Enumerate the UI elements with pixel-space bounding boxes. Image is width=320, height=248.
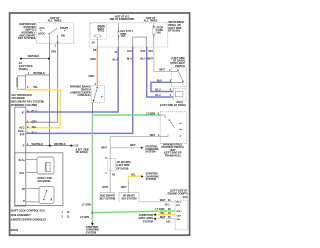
solenoid coil bbox=[46, 162, 50, 171]
LT GRN wire: down to junction, right to PNP switch bbox=[91, 114, 93, 222]
main body ECU inner dashed box bbox=[91, 23, 107, 40]
svg-text:S19: S19 bbox=[148, 49, 153, 53]
LT GRN wire to engine compartment connector bbox=[92, 211, 175, 213]
svg-text:WHT: WHT bbox=[150, 133, 156, 137]
svg-text:WHT: WHT bbox=[121, 185, 127, 189]
svg-text:30478: 30478 bbox=[11, 228, 19, 232]
svg-text:TRANSAXLE): TRANSAXLE) bbox=[165, 153, 181, 157]
W/ smart key bracket bbox=[119, 193, 139, 202]
YEL wire loop: solenoid pin2 right, down, back into ECU bbox=[25, 90, 60, 128]
ECU pin numbers / wire colors bbox=[27, 109, 43, 146]
svg-text:(LEFT SIDE OF DASH): (LEFT SIDE OF DASH) bbox=[160, 103, 186, 107]
ignition switch contacts bbox=[38, 26, 69, 43]
PNP interior contacts bbox=[160, 115, 165, 118]
header HOT AT ALL TIMES (stop fuse) bbox=[144, 16, 158, 23]
svg-text:BLU: BLU bbox=[155, 88, 160, 92]
svg-text:52-1: 52-1 bbox=[165, 203, 171, 207]
YEL wire computer data lines bbox=[156, 214, 175, 216]
svg-text:10A: 10A bbox=[156, 31, 161, 35]
svg-text:2A: 2A bbox=[92, 40, 95, 44]
svg-text:B12: B12 bbox=[141, 49, 146, 53]
BLU wire 2C junction to J/B pin B12 bbox=[147, 47, 174, 97]
svg-text:GRY: GRY bbox=[51, 49, 57, 53]
svg-text:SOLENOID: SOLENOID bbox=[12, 96, 25, 100]
svg-text:(STEERING COLUMN): (STEERING COLUMN) bbox=[11, 103, 37, 107]
LT GRN junction dot bbox=[91, 212, 93, 214]
WHT wire computer data lines bbox=[156, 218, 175, 220]
svg-text:STP: STP bbox=[20, 132, 25, 136]
svg-text:ENGINE COMPT): ENGINE COMPT) bbox=[168, 192, 188, 196]
svg-text:WHT/BLK: WHT/BLK bbox=[28, 54, 40, 58]
STOP fuse bbox=[153, 23, 155, 27]
header HOT AT ALL TIMES (ignition) bbox=[48, 16, 62, 23]
long WHT/BLK vertical down to ECU E pin bbox=[48, 59, 50, 146]
instrument panel J/B dashed box bbox=[89, 23, 168, 47]
svg-text:1L: 1L bbox=[67, 215, 70, 219]
svg-text:SWITCH: SWITCH bbox=[175, 64, 185, 68]
connector internal pin refs bbox=[176, 202, 182, 221]
BLU wire IG pin to J/B pin 27 bbox=[26, 47, 118, 112]
svg-text:LT GRN: LT GRN bbox=[82, 203, 91, 207]
svg-text:SLS+: SLS+ bbox=[19, 158, 26, 162]
svg-text:BLU: BLU bbox=[127, 57, 132, 61]
ECU pin names bbox=[18, 110, 25, 147]
starting/charging branch 1 bbox=[110, 147, 141, 149]
key interlock solenoid label bbox=[11, 93, 44, 107]
PNP switch label bbox=[162, 143, 184, 158]
svg-text:OF DASH): OF DASH) bbox=[168, 29, 180, 33]
J/C No.4 junction connector bbox=[107, 159, 115, 171]
engine compartment connector dashed box bbox=[175, 200, 188, 230]
arrow down to starting/charging bbox=[91, 223, 94, 226]
svg-text:SYSTEM: SYSTEM bbox=[145, 150, 155, 154]
key interlock solenoid coil bbox=[18, 76, 26, 89]
ORG wire to parking brake switch bbox=[96, 47, 98, 86]
svg-text:YEL: YEL bbox=[131, 172, 136, 176]
svg-text:BLU: BLU bbox=[157, 79, 162, 83]
fuse in main body ECU bbox=[95, 35, 100, 37]
J/B internal jumper loop C19-B12 bbox=[133, 37, 147, 47]
svg-text:YEL: YEL bbox=[33, 85, 38, 89]
shift lock solenoid box bbox=[37, 157, 54, 174]
svg-text:(C6): (C6) bbox=[183, 195, 188, 199]
svg-text:OF DASH): OF DASH) bbox=[76, 150, 88, 154]
E pin WHT/BLK wire with connector bbox=[26, 145, 74, 147]
svg-text:SYSTEM: SYSTEM bbox=[143, 219, 153, 223]
svg-text:(UNDER CENTER CONSOLE): (UNDER CENTER CONSOLE) bbox=[11, 217, 46, 221]
svg-text:ALL TIMES: ALL TIMES bbox=[48, 19, 62, 23]
svg-text:SOLENOID: SOLENOID bbox=[38, 179, 51, 183]
svg-text:ORG: ORG bbox=[89, 74, 95, 78]
P position switch box bbox=[39, 186, 54, 203]
svg-text:15A: 15A bbox=[121, 34, 126, 38]
GRY wire from ignition to ECU bbox=[26, 43, 58, 122]
parking brake switch label bbox=[70, 85, 91, 98]
shift lock control ECU box (narrow tall) bbox=[15, 107, 26, 206]
svg-text:C19: C19 bbox=[127, 49, 132, 53]
svg-text:KEY SYSTEM: KEY SYSTEM bbox=[122, 198, 137, 201]
svg-text:A21: A21 bbox=[166, 220, 171, 224]
svg-text:4L: 4L bbox=[67, 210, 70, 214]
BLU wire stop light switch to 2C junction bbox=[151, 82, 173, 91]
svg-text:PANEL): PANEL) bbox=[19, 67, 28, 71]
svg-text:LT GRN: LT GRN bbox=[80, 215, 89, 219]
svg-text:WHT: WHT bbox=[159, 68, 165, 72]
PNP switch dashed box bbox=[160, 112, 186, 144]
svg-text:WHT: WHT bbox=[130, 143, 136, 147]
2C junction connector dashed box bbox=[173, 88, 186, 100]
svg-text:GRY: GRY bbox=[32, 119, 38, 123]
svg-text:START: START bbox=[60, 26, 69, 30]
border frame bbox=[10, 13, 190, 235]
svg-text:RELAY ENERGIZED: RELAY ENERGIZED bbox=[110, 17, 135, 21]
WHT wire from stop fuse to stop light switch bbox=[154, 47, 172, 72]
svg-text:YEL: YEL bbox=[32, 125, 37, 129]
J/B bottom pin labels bbox=[93, 48, 153, 54]
ignition switch label text bbox=[18, 22, 36, 40]
svg-text:LT GRN: LT GRN bbox=[146, 112, 155, 116]
svg-text:KLS+: KLS+ bbox=[18, 129, 25, 133]
W/O smart key bracket bbox=[100, 193, 115, 201]
svg-text:ORG: ORG bbox=[90, 57, 96, 61]
instrument panel J/B label bbox=[168, 20, 185, 32]
svg-text:IG: IG bbox=[22, 110, 25, 114]
svg-text:BLU: BLU bbox=[155, 93, 160, 97]
wire from parking brake switch to LT GRN bbox=[91, 103, 93, 115]
parking brake switch dashed box bbox=[92, 86, 105, 103]
svg-text:SYSTEM: SYSTEM bbox=[146, 177, 156, 181]
header HOT AT IG1 RELAY ENERGIZED bbox=[110, 14, 135, 21]
svg-text:BLU: BLU bbox=[140, 57, 145, 61]
computer data lines label bbox=[139, 213, 154, 223]
svg-text:CONSOLE): CONSOLE) bbox=[78, 93, 91, 97]
svg-text:SHIFT LOCK CONTROL ECU: SHIFT LOCK CONTROL ECU bbox=[11, 209, 45, 213]
svg-text:WHT: WHT bbox=[101, 145, 107, 149]
ignition switch assembly box bbox=[37, 23, 74, 43]
svg-text:WHT: WHT bbox=[160, 198, 166, 202]
svg-text:KEY SYSTEM: KEY SYSTEM bbox=[100, 198, 115, 201]
stop light switch label bbox=[170, 56, 185, 68]
svg-text:SYSTEM: SYSTEM bbox=[86, 230, 96, 234]
engine compartment connector labels bbox=[168, 189, 188, 200]
svg-text:KEY SYSTEM): KEY SYSTEM) bbox=[18, 36, 36, 40]
svg-text:WHT: WHT bbox=[102, 185, 108, 189]
svg-text:CA H: CA H bbox=[176, 214, 181, 217]
starting/charging branch 2 (YEL) bbox=[129, 176, 142, 181]
ground point E1 bbox=[20, 58, 22, 60]
svg-text:ACC: ACC bbox=[39, 26, 45, 30]
svg-text:SUB-ASSEMBLY: SUB-ASSEMBLY bbox=[11, 213, 31, 217]
svg-text:ECU): ECU) bbox=[98, 29, 104, 33]
wire color labels under J/B bbox=[89, 57, 154, 79]
WHT wire bracket2 to engine connector row1 bbox=[139, 201, 175, 203]
shift lock ECU sub-assembly box (wide bottom) bbox=[15, 153, 63, 206]
WHT wire to PNP pin 4 bbox=[110, 137, 160, 193]
svg-text:WHT: WHT bbox=[147, 57, 153, 61]
svg-text:WHT/BLK: WHT/BLK bbox=[54, 142, 66, 146]
svg-text:CA L: CA L bbox=[176, 218, 181, 221]
svg-text:LOCK: LOCK bbox=[38, 32, 45, 36]
connector row labels bbox=[155, 198, 171, 223]
legend refs bbox=[62, 210, 71, 219]
svg-text:OF DASH): OF DASH) bbox=[116, 166, 128, 170]
BLU wire STP pin to J/B pin C19 bbox=[26, 47, 133, 133]
stop light switch dashed box bbox=[171, 68, 186, 87]
svg-text:BLU: BLU bbox=[113, 57, 118, 61]
svg-text:LT GRN: LT GRN bbox=[155, 207, 164, 211]
ACC cut relay bbox=[118, 23, 120, 31]
shift lock control ECU sub-assembly label bbox=[11, 209, 46, 222]
svg-text:ALL TIMES: ALL TIMES bbox=[144, 19, 158, 23]
svg-text:ON: ON bbox=[61, 34, 65, 38]
svg-text:SLS-: SLS- bbox=[19, 171, 25, 175]
junction dot bbox=[48, 58, 50, 60]
svg-text:STA 1: STA 1 bbox=[176, 210, 182, 213]
